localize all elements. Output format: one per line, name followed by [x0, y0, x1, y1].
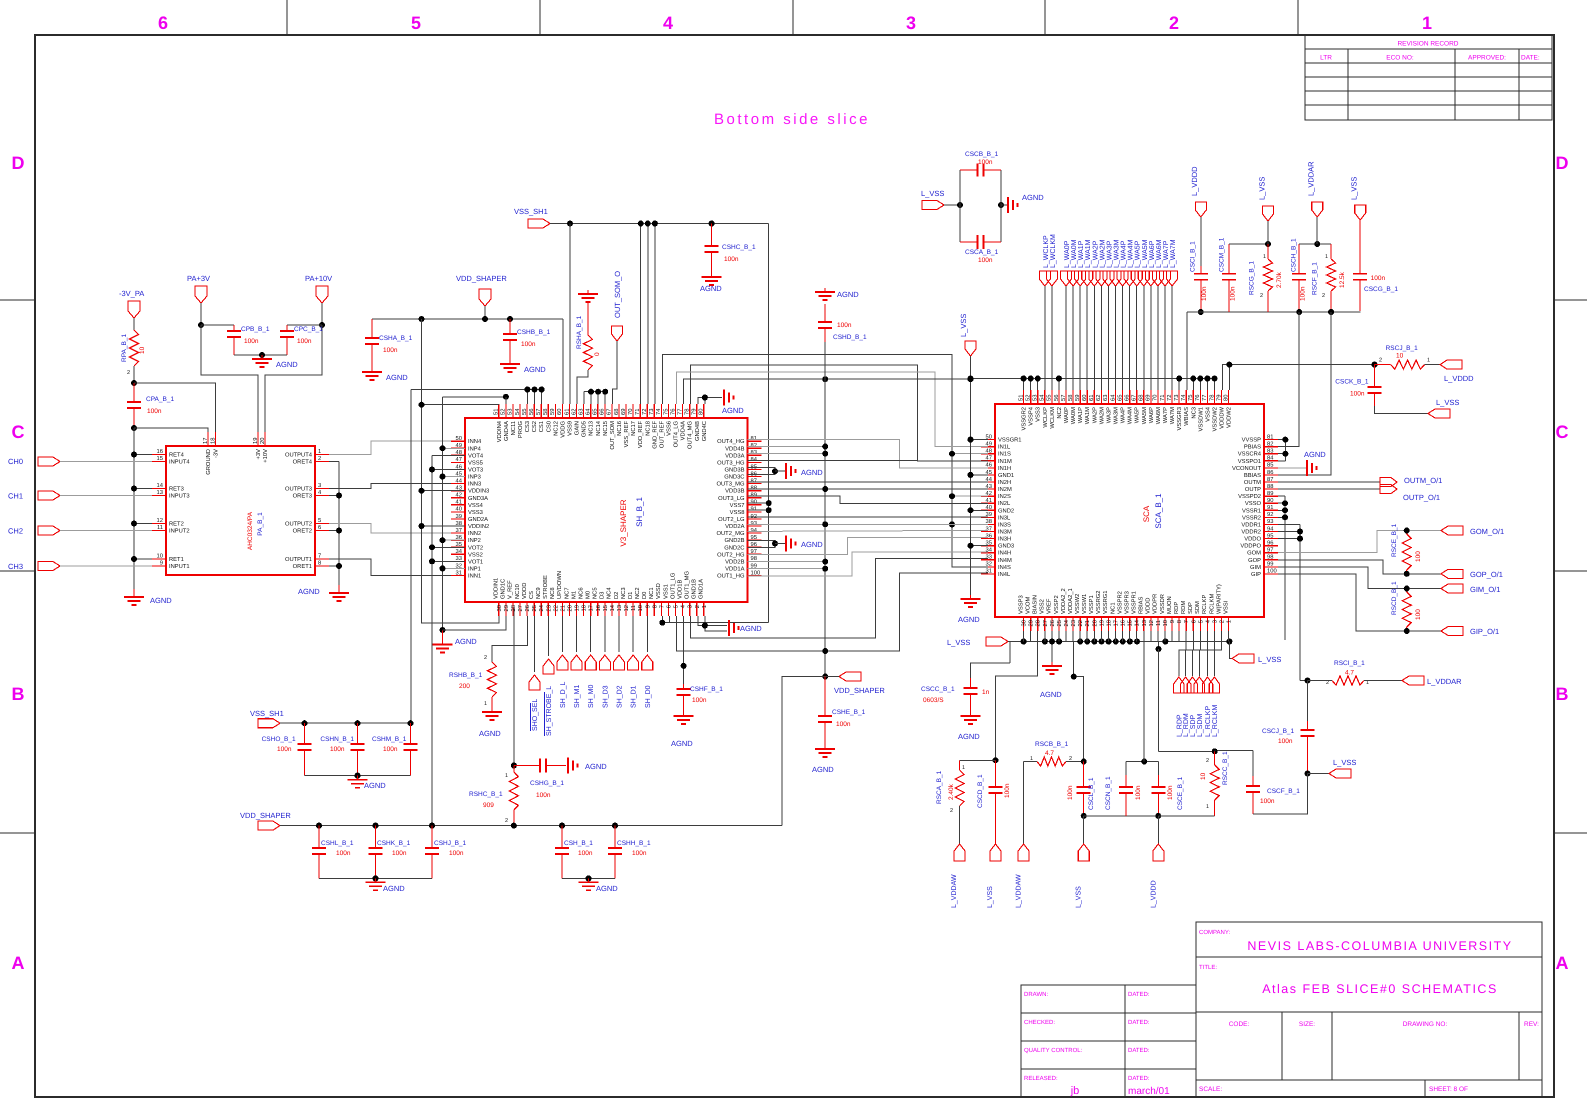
wire — [1065, 286, 1067, 390]
svg-text:13: 13 — [616, 605, 623, 611]
svg-text:CSCM_B_1: CSCM_B_1 — [1218, 237, 1225, 272]
svg-text:IN3S: IN3S — [998, 521, 1011, 528]
svg-text:VDDD: VDDD — [1146, 598, 1152, 614]
junction — [131, 380, 137, 386]
ground AGND — [1001, 204, 1008, 206]
svg-text:VSSW2: VSSW2 — [1074, 594, 1081, 614]
svg-text:GND3C: GND3C — [724, 474, 744, 481]
svg-text:94: 94 — [1267, 525, 1274, 532]
wire pin stub — [1185, 631, 1187, 642]
svg-text:4.7: 4.7 — [1045, 750, 1054, 757]
junction — [1296, 309, 1302, 315]
resistor RSHC_B_1 value 909 with CSHG — [513, 608, 515, 766]
svg-text:IN2M: IN2M — [998, 486, 1012, 493]
wire VVSSP/VSSCR4/VSSPO1 tie — [1278, 439, 1285, 441]
svg-text:100n: 100n — [632, 850, 647, 857]
ground AGND — [442, 631, 444, 645]
junction — [968, 543, 974, 549]
svg-text:SH_D3: SH_D3 — [602, 685, 609, 708]
wire — [541, 390, 543, 405]
junction — [822, 486, 828, 492]
svg-text:L_VSS: L_VSS — [987, 886, 994, 908]
junction — [968, 376, 974, 382]
svg-text:RSHA_B_1: RSHA_B_1 — [576, 315, 583, 349]
svg-text:VDD3B: VDD3B — [725, 488, 744, 495]
junction — [419, 523, 425, 529]
junction — [1297, 536, 1303, 542]
resistor RSHA_B_1 value 0 — [587, 290, 589, 294]
svg-text:RSCC_B_1: RSCC_B_1 — [1222, 751, 1229, 785]
svg-text:56: 56 — [1053, 395, 1060, 401]
svg-text:1: 1 — [1227, 620, 1233, 623]
svg-text:73: 73 — [1173, 395, 1180, 401]
svg-text:1: 1 — [1422, 13, 1432, 33]
junction — [702, 395, 708, 401]
svg-text:60: 60 — [1081, 395, 1088, 401]
svg-text:19: 19 — [574, 605, 581, 611]
capacitor CPA_B_1 value 100n — [133, 383, 135, 402]
svg-text:29: 29 — [503, 605, 510, 611]
wire OUT2_LG to IN3L — [748, 516, 989, 518]
svg-text:D3: D3 — [599, 592, 606, 599]
svg-text:9: 9 — [644, 605, 651, 608]
svg-text:2: 2 — [1206, 758, 1209, 764]
svg-text:9: 9 — [1169, 620, 1176, 623]
svg-text:6: 6 — [318, 524, 321, 531]
ground AGND — [357, 776, 359, 780]
svg-text:51: 51 — [494, 409, 500, 415]
svg-text:VSSP3: VSSP3 — [1017, 595, 1024, 614]
wire RSCI node riser — [1300, 680, 1308, 682]
svg-text:OUT_REF: OUT_REF — [658, 421, 665, 449]
svg-text:55: 55 — [522, 409, 528, 415]
svg-text:CSCK_B_1: CSCK_B_1 — [1335, 378, 1369, 385]
svg-text:DATED:: DATED: — [1128, 1047, 1150, 1054]
wire RSCC node — [1159, 750, 1215, 752]
svg-text:58: 58 — [1067, 395, 1074, 401]
svg-text:2: 2 — [694, 605, 701, 608]
svg-text:VOT4: VOT4 — [468, 452, 484, 459]
wire OUT1_HG to IN4H — [748, 552, 989, 576]
junction — [131, 425, 137, 431]
svg-text:OUTPUT4: OUTPUT4 — [285, 452, 313, 459]
svg-text:82: 82 — [1267, 440, 1273, 447]
svg-text:L_WA3P: L_WA3P — [1106, 240, 1113, 268]
wire GOP — [1278, 560, 1441, 574]
svg-text:VDDA2_1: VDDA2_1 — [1067, 588, 1074, 614]
svg-text:RSCA_B_1: RSCA_B_1 — [936, 770, 943, 804]
junction — [1282, 507, 1288, 513]
junction — [957, 202, 963, 208]
svg-text:67: 67 — [606, 409, 613, 415]
svg-text:34: 34 — [986, 547, 993, 554]
svg-text:VSS9: VSS9 — [567, 421, 574, 436]
svg-text:IN3H: IN3H — [998, 536, 1011, 543]
junction — [1297, 529, 1303, 535]
svg-text:INN4: INN4 — [468, 439, 482, 445]
svg-text:18: 18 — [581, 605, 588, 611]
svg-text:NC6: NC6 — [577, 587, 584, 599]
svg-text:ORET2: ORET2 — [293, 528, 312, 535]
svg-text:INP2: INP2 — [468, 537, 481, 544]
svg-text:2: 2 — [484, 655, 487, 661]
junction — [772, 541, 778, 547]
power terminal VDD_SHAPER (mid) — [839, 672, 861, 681]
svg-text:INPUT3: INPUT3 — [169, 493, 190, 500]
svg-text:A: A — [1556, 953, 1569, 973]
wire stub — [1278, 509, 1285, 511]
wire BIASIN riser to RSCA/CSCD node — [996, 642, 1038, 761]
wire NC13/NC14/NC15 tie — [584, 391, 605, 393]
wire — [319, 877, 432, 879]
power terminal L_VDDAR — [1402, 676, 1424, 685]
svg-text:65: 65 — [1116, 395, 1123, 401]
wire pin stub — [1178, 631, 1180, 642]
svg-text:CSHB_B_1: CSHB_B_1 — [517, 329, 551, 336]
wire GND stub — [971, 474, 989, 476]
svg-text:16: 16 — [157, 448, 163, 455]
capacitor CSCJ_B_1 value 100n — [1307, 681, 1309, 722]
junction — [1282, 514, 1288, 520]
svg-text:INN2: INN2 — [468, 530, 481, 537]
wire OUTM — [1278, 481, 1380, 483]
junction — [1134, 639, 1140, 645]
svg-text:55: 55 — [1047, 395, 1053, 401]
wire VOT trunk x=432 — [431, 455, 433, 825]
svg-text:INN3: INN3 — [468, 481, 481, 488]
wire OUT2_MG to IN3M — [748, 530, 989, 531]
svg-text:72: 72 — [1166, 395, 1173, 401]
wire VDD3A stub — [748, 453, 826, 455]
svg-text:WA0M: WA0M — [1070, 407, 1077, 424]
ground AGND — [824, 745, 826, 749]
svg-text:VDD_SHAPER: VDD_SHAPER — [834, 686, 885, 695]
wire stub — [1278, 538, 1300, 540]
svg-text:RBIAS: RBIAS — [1138, 596, 1145, 614]
junction — [1081, 759, 1087, 765]
svg-text:OUT4_MG: OUT4_MG — [687, 421, 694, 450]
capacitor CSCA_B_1 value 100n — [960, 241, 978, 243]
svg-text:APPROVED:: APPROVED: — [1468, 55, 1506, 62]
junction — [507, 316, 513, 322]
svg-text:CSCN_B_1: CSCN_B_1 — [1105, 776, 1112, 810]
junction — [949, 493, 955, 499]
junction — [968, 507, 974, 513]
svg-text:22: 22 — [1077, 620, 1084, 626]
junction — [336, 563, 342, 569]
junction — [1204, 376, 1210, 382]
svg-text:82: 82 — [751, 442, 757, 449]
svg-text:C: C — [1556, 422, 1569, 442]
junction — [440, 565, 446, 571]
junction — [1404, 528, 1410, 534]
svg-text:VSSW1: VSSW1 — [1081, 594, 1088, 614]
svg-text:11: 11 — [157, 525, 163, 531]
wire pin stub — [1086, 631, 1088, 642]
svg-text:QUALITY CONTROL:: QUALITY CONTROL: — [1024, 1047, 1083, 1054]
svg-text:CSCH_B_1: CSCH_B_1 — [1291, 238, 1298, 272]
ground AGND — [711, 273, 713, 277]
wire — [960, 759, 996, 761]
junction — [1081, 813, 1087, 819]
svg-text:VDDPR: VDDPR — [1153, 594, 1159, 614]
svg-text:VDDO: VDDO — [1244, 536, 1261, 543]
svg-text:VDDIN4: VDDIN4 — [497, 420, 503, 442]
svg-text:AGND: AGND — [1022, 193, 1044, 202]
wire — [1079, 286, 1081, 390]
svg-text:CHECKED:: CHECKED: — [1024, 1019, 1055, 1026]
svg-text:1n: 1n — [982, 689, 990, 696]
svg-text:2.40k: 2.40k — [948, 783, 955, 800]
svg-text:REV:: REV: — [1524, 1021, 1539, 1028]
svg-text:13: 13 — [1141, 620, 1148, 626]
svg-text:VSS3: VSS3 — [468, 509, 483, 516]
svg-text:12: 12 — [623, 605, 630, 611]
svg-text:100n: 100n — [1371, 275, 1386, 282]
terminal SH_STROBE_L — [548, 616, 550, 656]
zone tick marks left — [0, 299, 35, 301]
wire pin stub — [1072, 631, 1074, 642]
svg-text:91: 91 — [1267, 504, 1273, 511]
svg-text:CS3: CS3 — [524, 421, 531, 432]
svg-text:CH3: CH3 — [8, 562, 23, 571]
svg-text:100: 100 — [1267, 568, 1277, 575]
capacitor CSHJ_B_1 value 100n — [431, 826, 433, 848]
wire — [952, 453, 988, 455]
svg-text:DATED:: DATED: — [1128, 1075, 1150, 1082]
resistor RPA_B_1 value 10 — [130, 330, 139, 366]
svg-text:51: 51 — [1018, 395, 1024, 401]
svg-text:3: 3 — [1211, 620, 1218, 623]
svg-text:VREF: VREF — [1047, 598, 1053, 614]
junction — [998, 202, 1004, 208]
svg-text:PROG: PROG — [517, 421, 524, 439]
terminal L_RCLKM — [1214, 631, 1221, 676]
svg-text:L_VDDAW: L_VDDAW — [951, 874, 958, 908]
svg-text:VSSPO1: VSSPO1 — [1238, 458, 1261, 465]
svg-text:94: 94 — [751, 527, 758, 534]
svg-text:SCALE:: SCALE: — [1199, 1086, 1222, 1093]
svg-text:36: 36 — [986, 532, 992, 539]
wire VDDIN — [422, 490, 466, 492]
svg-text:VDD4B: VDD4B — [725, 446, 744, 452]
svg-text:1: 1 — [318, 449, 321, 455]
svg-text:PA_B_1: PA_B_1 — [257, 512, 264, 536]
svg-text:100n: 100n — [383, 746, 398, 753]
svg-text:NC9: NC9 — [535, 587, 542, 599]
svg-text:CSHE_B_1: CSHE_B_1 — [832, 709, 866, 716]
svg-text:76: 76 — [669, 409, 676, 415]
svg-text:4: 4 — [663, 13, 673, 33]
junction — [1404, 628, 1410, 634]
power terminal L_VSS — [965, 341, 976, 356]
wire pin stub — [1213, 631, 1215, 642]
svg-text:100n: 100n — [1067, 785, 1074, 800]
svg-text:69: 69 — [620, 409, 627, 415]
svg-text:92: 92 — [751, 513, 757, 520]
svg-text:VSSD: VSSD — [655, 583, 662, 599]
wire — [484, 306, 486, 319]
svg-text:5: 5 — [411, 13, 421, 33]
svg-text:GND3: GND3 — [998, 543, 1014, 550]
svg-text:WCLKP: WCLKP — [1042, 407, 1049, 428]
svg-text:L_VSS: L_VSS — [1258, 655, 1281, 664]
svg-text:WA3P: WA3P — [1105, 407, 1112, 423]
capacitor CPC_B_1 value 100n — [286, 325, 288, 331]
svg-text:100n: 100n — [836, 721, 851, 728]
terminal SH_D_L — [561, 616, 563, 652]
svg-text:85: 85 — [751, 463, 757, 470]
power terminal L_VSS — [1428, 409, 1450, 418]
svg-text:VSSGR2: VSSGR2 — [1021, 407, 1028, 431]
svg-text:VSS4: VSS4 — [468, 502, 484, 509]
svg-text:14: 14 — [1135, 619, 1141, 626]
svg-text:IN1S: IN1S — [998, 451, 1011, 458]
svg-text:WA6M: WA6M — [1155, 407, 1162, 424]
svg-text:86: 86 — [751, 470, 757, 477]
svg-text:BIASIN: BIASIN — [1032, 595, 1039, 614]
junction — [949, 521, 955, 527]
svg-text:OUT1_LG: OUT1_LG — [669, 572, 676, 599]
svg-text:59: 59 — [549, 409, 556, 415]
svg-text:3: 3 — [687, 605, 694, 608]
junction — [1404, 571, 1410, 577]
wire — [1375, 406, 1429, 414]
wire VSSI to L_VSS — [1229, 642, 1232, 659]
svg-text:24: 24 — [538, 604, 545, 611]
svg-text:VSSR1: VSSR1 — [1242, 507, 1261, 514]
svg-text:VSS3: VSS3 — [1035, 407, 1042, 422]
junction — [373, 875, 379, 881]
svg-text:L_RCLKM: L_RCLKM — [1212, 705, 1219, 737]
capacitor CSHD_B_1 value 100n (ground on top) — [824, 288, 826, 292]
svg-text:1: 1 — [1427, 358, 1430, 364]
svg-text:93: 93 — [1267, 518, 1273, 525]
wire — [1126, 761, 1158, 763]
svg-text:AGND: AGND — [958, 732, 980, 741]
junction — [968, 376, 974, 382]
ground AGND — [970, 595, 972, 599]
svg-text:78: 78 — [1208, 395, 1215, 401]
wire VSSGR1 — [971, 439, 989, 441]
junction — [1198, 309, 1204, 315]
wire — [1100, 286, 1102, 390]
svg-text:10: 10 — [637, 605, 644, 611]
wire — [825, 676, 839, 678]
wire VDD_SHAPER rail — [280, 825, 782, 827]
svg-text:72: 72 — [641, 409, 648, 415]
svg-text:AGND: AGND — [386, 373, 408, 382]
wire — [329, 461, 339, 463]
svg-text:100n: 100n — [978, 257, 993, 264]
svg-text:6: 6 — [1190, 620, 1197, 623]
ground AGND under rail — [1051, 642, 1053, 663]
svg-text:14: 14 — [610, 604, 616, 611]
junction — [822, 376, 828, 382]
svg-text:PBIAS: PBIAS — [1244, 444, 1261, 451]
svg-text:D0: D0 — [641, 592, 648, 599]
svg-text:CH1: CH1 — [8, 492, 23, 501]
svg-text:100n: 100n — [837, 322, 852, 329]
svg-text:IN2L: IN2L — [998, 500, 1011, 507]
junction — [993, 757, 999, 763]
svg-text:-3V: -3V — [213, 449, 220, 458]
svg-text:AGND: AGND — [585, 762, 607, 771]
svg-text:26: 26 — [1049, 620, 1056, 626]
svg-text:L_WA6M: L_WA6M — [1156, 239, 1163, 268]
svg-text:PA+10V: PA+10V — [305, 274, 332, 283]
svg-text:66: 66 — [1123, 395, 1130, 401]
svg-text:Bottom side slice: Bottom side slice — [714, 111, 870, 128]
svg-text:SCA_B_1: SCA_B_1 — [1154, 493, 1163, 529]
svg-text:OUT4_LG: OUT4_LG — [673, 421, 680, 448]
svg-text:17: 17 — [1114, 620, 1120, 626]
svg-text:VDD1B: VDD1B — [677, 580, 683, 599]
svg-text:NC3: NC3 — [1190, 407, 1197, 419]
svg-text:L_VDDAR: L_VDDAR — [1427, 677, 1462, 686]
junction — [822, 674, 828, 680]
ground AGND sideways — [567, 758, 569, 774]
wire — [200, 303, 202, 325]
svg-text:BBIAS: BBIAS — [1244, 472, 1261, 479]
svg-text:L_WA3M: L_WA3M — [1114, 239, 1121, 268]
junction — [702, 623, 708, 629]
junction — [681, 663, 687, 669]
svg-text:100n: 100n — [1229, 286, 1236, 301]
svg-text:VDD4A: VDD4A — [681, 421, 687, 440]
svg-text:57: 57 — [536, 409, 542, 415]
junction — [612, 823, 618, 829]
svg-text:23: 23 — [545, 605, 552, 611]
wire OUT_SOM — [612, 341, 617, 404]
svg-text:GND5: GND5 — [581, 421, 588, 437]
svg-text:RSCI_B_1: RSCI_B_1 — [1334, 660, 1365, 667]
junction — [1211, 376, 1217, 382]
junction — [1028, 376, 1034, 382]
wire VSS trunk x=411 — [411, 389, 542, 391]
svg-text:jb: jb — [1070, 1085, 1080, 1097]
svg-text:GND_REF: GND_REF — [651, 421, 658, 449]
wire — [775, 543, 786, 545]
ground AGND — [371, 368, 373, 372]
svg-text:29: 29 — [1028, 620, 1035, 626]
svg-text:2: 2 — [127, 370, 130, 376]
svg-text:CPC_B_1: CPC_B_1 — [294, 326, 323, 333]
wire GND stub — [971, 509, 989, 511]
ground AGND — [683, 712, 685, 716]
terminal GIM_O/1 — [1441, 584, 1463, 593]
svg-text:100n: 100n — [1278, 738, 1293, 745]
wire stub — [1278, 495, 1285, 497]
svg-text:AGND: AGND — [150, 596, 172, 605]
title block — [1196, 922, 1542, 1097]
svg-text:D: D — [1556, 153, 1569, 173]
svg-text:CSHF_B_1: CSHF_B_1 — [690, 686, 723, 693]
junction — [709, 221, 715, 227]
svg-text:87: 87 — [1267, 476, 1273, 483]
terminal OUTM_O/1 — [1380, 478, 1397, 487]
svg-text:VCOM: VCOM — [1024, 596, 1031, 614]
svg-text:GND1B: GND1B — [691, 579, 698, 599]
svg-text:100n: 100n — [392, 850, 407, 857]
wire — [329, 495, 339, 497]
svg-text:L_VSS: L_VSS — [921, 189, 944, 198]
wire pin stub — [1221, 631, 1223, 642]
svg-text:2.70k: 2.70k — [1276, 271, 1283, 288]
svg-text:OUTP_O/1: OUTP_O/1 — [1403, 493, 1440, 502]
wire GOM — [1278, 531, 1441, 553]
svg-text:VCONOUT: VCONOUT — [1232, 465, 1261, 472]
